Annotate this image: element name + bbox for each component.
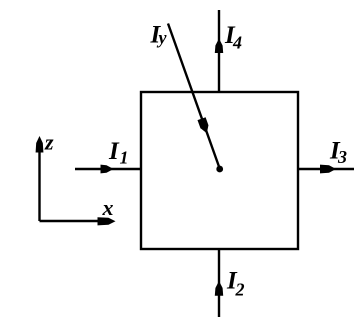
arrowhead Iy bbox=[198, 117, 209, 133]
arrowhead z bbox=[36, 136, 44, 153]
label I2 bbox=[226, 268, 245, 300]
label I4 bbox=[224, 22, 242, 53]
arrowhead I1 bbox=[101, 165, 114, 174]
arrowhead I3 bbox=[320, 165, 336, 174]
svg-text:2: 2 bbox=[235, 280, 245, 300]
wire I4 (top lead) bbox=[218, 10, 220, 91]
label I3 bbox=[329, 138, 347, 167]
label Iy bbox=[150, 21, 168, 48]
node dot (centre terminal) bbox=[216, 166, 223, 173]
svg-text:x: x bbox=[102, 195, 114, 220]
wire I3 (right lead) bbox=[298, 168, 354, 170]
svg-text:z: z bbox=[44, 130, 54, 155]
svg-text:3: 3 bbox=[337, 147, 347, 167]
svg-text:4: 4 bbox=[232, 33, 242, 53]
wire I1 (left lead) bbox=[75, 168, 140, 170]
arrowhead I4 bbox=[215, 39, 223, 54]
label I1 bbox=[108, 138, 129, 168]
axis z (vertical) bbox=[38, 140, 40, 221]
wire Iy (diagonal lead into centre) bbox=[168, 24, 220, 169]
box (control volume square) bbox=[141, 92, 298, 249]
arrowhead I2 bbox=[215, 281, 223, 296]
axis x (horizontal) bbox=[40, 220, 111, 222]
arrowhead x bbox=[98, 217, 116, 225]
wire I2 (bottom lead) bbox=[218, 250, 220, 317]
svg-text:1: 1 bbox=[120, 148, 129, 168]
svg-text:I: I bbox=[108, 138, 120, 165]
svg-text:y: y bbox=[157, 28, 168, 48]
